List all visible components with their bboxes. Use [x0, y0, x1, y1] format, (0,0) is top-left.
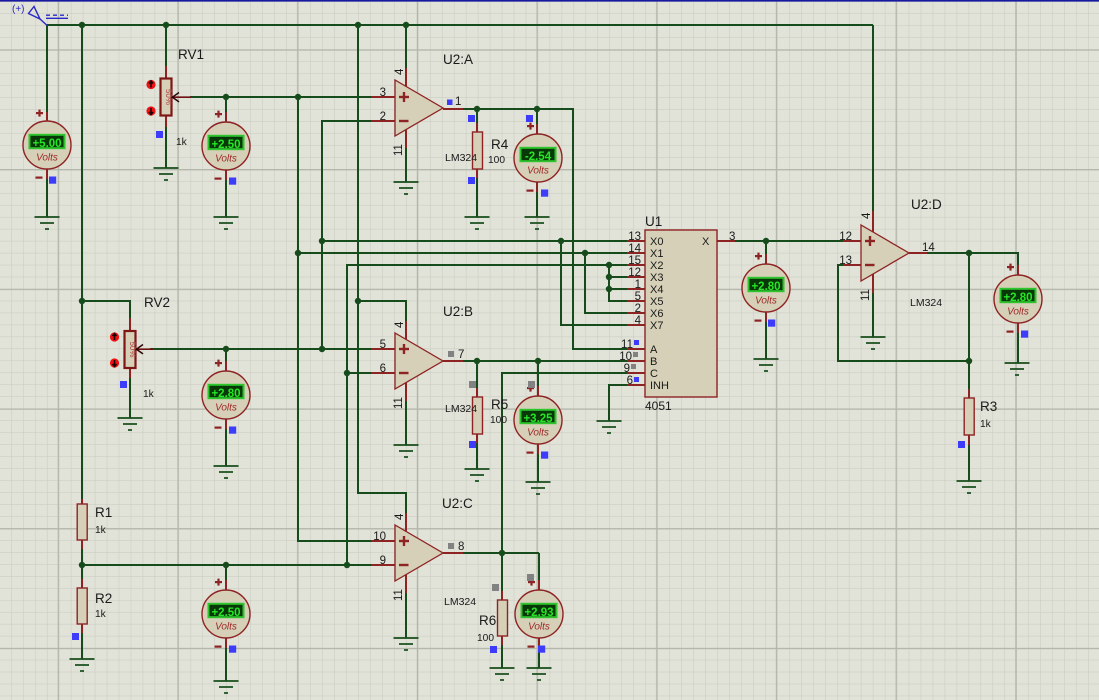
handle PV3 top [526, 115, 533, 122]
svg-text:4: 4 [861, 212, 873, 219]
node wiper1-PV2 [223, 94, 229, 100]
wire 5V to U2:A pin4 [405, 25, 407, 68]
pin stubs op-amp U2:B [371, 321, 463, 401]
svg-text:X4: X4 [650, 284, 663, 296]
handle R2 [72, 633, 79, 640]
ground (RV1) [154, 168, 179, 180]
wire X1 to X6 link [585, 253, 627, 313]
node rail-RV2 branch [79, 298, 85, 304]
wire 5V to U2:D pin4 [872, 25, 874, 211]
svg-text:Volts: Volts [755, 296, 777, 307]
wire RV1 net to U1 X1 [298, 252, 627, 254]
title bar [0, 0, 1099, 2]
svg-text:6: 6 [627, 375, 633, 387]
handle U1 pin11 blue [634, 340, 639, 345]
svg-text:10: 10 [619, 351, 632, 363]
svg-text:1: 1 [455, 96, 461, 108]
wire left rail down to R1 [81, 25, 83, 499]
node 5V-U2B pin4 [355, 298, 361, 304]
svg-text:-2.54: -2.54 [525, 151, 552, 163]
voltmeter PV3 -2.54 [514, 123, 562, 197]
svg-text:1k: 1k [176, 137, 188, 148]
wire U2:D pin11 to ground [872, 293, 874, 337]
node U2A out-R4 [474, 106, 480, 112]
resistor R4 [473, 132, 483, 169]
wire to voltmeter PV2 top [225, 97, 227, 112]
svg-text:14: 14 [922, 242, 935, 254]
svg-text:+5.00: +5.00 [32, 138, 61, 150]
voltmeter PV5 +3.25 [514, 385, 562, 459]
svg-text:(+): (+) [12, 4, 25, 15]
svg-text:Volts: Volts [215, 622, 237, 633]
pin stubs R6 [501, 591, 503, 645]
wire X0 to X7 link [561, 241, 627, 325]
resistor R3 [964, 398, 974, 435]
node U2A out-PV3 [534, 106, 540, 112]
voltmeter PV8 +2.80 [742, 253, 790, 327]
pin stubs RV2 [129, 318, 131, 378]
wire RV1 bottom to ground [165, 127, 167, 168]
svg-text:R6: R6 [479, 613, 496, 628]
op-amp U2:C [395, 525, 443, 581]
handle R6 bottom [490, 646, 497, 653]
svg-text:X0: X0 [650, 236, 663, 248]
svg-text:RV1: RV1 [178, 47, 204, 62]
ground (voltmeter PV9) [1005, 363, 1030, 375]
svg-text:1k: 1k [980, 419, 992, 430]
svg-text:R1: R1 [95, 505, 112, 520]
pin stubs R4 [476, 123, 478, 178]
op-amp U2:B [395, 333, 443, 389]
pin stub U1 X output [717, 240, 735, 242]
svg-text:4: 4 [394, 321, 406, 328]
pin stubs voltmeter PV3 [536, 124, 538, 192]
svg-text:R4: R4 [491, 137, 509, 152]
resistor R6 [498, 600, 508, 636]
pin stubs voltmeter PV2 [225, 112, 227, 180]
wire U2:C output up to C select [502, 373, 627, 553]
potentiometer RV1 [146, 79, 191, 116]
svg-text:4: 4 [394, 68, 406, 75]
svg-text:12: 12 [628, 267, 641, 279]
handle U1 pin6 blue [634, 377, 639, 382]
svg-text:4: 4 [635, 315, 642, 327]
node X0-left [319, 238, 325, 244]
svg-text:X7: X7 [650, 320, 663, 332]
wire to R4 top [476, 109, 478, 123]
svg-text:11: 11 [860, 289, 872, 301]
voltmeter PV1 +5.00 [23, 110, 71, 184]
pin stubs RV1 [165, 66, 167, 127]
svg-text:U2:D: U2:D [911, 197, 942, 212]
wire RV2 wiper to U2:B pin5 [150, 348, 371, 350]
pin stubs voltmeter PV8 [765, 254, 767, 322]
node X3 [606, 274, 612, 280]
handle U2:A out blue [447, 100, 453, 106]
ground (voltmeter PV8) [754, 359, 779, 371]
node U2C out [499, 550, 505, 556]
handle RV2 [120, 381, 127, 388]
node U2B out-PV5 [535, 358, 541, 364]
pin stubs R1 [81, 499, 83, 549]
resistor R1 [77, 504, 87, 540]
svg-text:R2: R2 [95, 591, 112, 606]
pin stubs voltmeter PV4 [225, 361, 227, 429]
op-amp U2:D [861, 225, 909, 281]
node X1-left [295, 250, 301, 256]
wire voltmeter PV5 bottom to ground [537, 454, 539, 482]
ground (R3) [957, 481, 982, 493]
pin stubs op-amp U2:A [371, 68, 463, 148]
svg-text:11: 11 [393, 589, 405, 601]
svg-text:X3: X3 [650, 272, 663, 284]
svg-text:U2:B: U2:B [443, 304, 473, 319]
wire divider net up to U1 X2 [347, 265, 627, 565]
svg-text:LM324: LM324 [910, 297, 942, 309]
svg-text:+2.80: +2.80 [751, 281, 780, 293]
svg-text:R3: R3 [980, 399, 997, 414]
ground (U2:B pin11) [394, 445, 419, 457]
handle PV7 top grey [527, 574, 534, 581]
wire rail branch to RV2 top [82, 301, 130, 318]
svg-text:2: 2 [635, 303, 641, 315]
node R1-R2 junction [79, 562, 85, 568]
wire voltmeter PV2 bottom to ground [225, 180, 227, 217]
pin stubs voltmeter PV5 [537, 386, 539, 454]
node rail-U2A pin4 [403, 22, 409, 28]
svg-text:11: 11 [393, 397, 405, 409]
svg-text:C: C [650, 368, 658, 380]
svg-text:X1: X1 [650, 248, 663, 260]
svg-text:Volts: Volts [528, 622, 550, 633]
wire rail to voltmeter PV1 [46, 25, 48, 112]
ground (R4) [465, 217, 490, 229]
wire to voltmeter PV8 top [765, 241, 767, 254]
multiplexer U1 4051 [645, 230, 717, 397]
svg-text:X5: X5 [650, 296, 663, 308]
wire voltmeter PV9 bottom to ground [1017, 333, 1019, 363]
svg-text:+2.80: +2.80 [1003, 292, 1032, 304]
svg-text:R5: R5 [491, 397, 508, 412]
svg-text:8: 8 [458, 541, 464, 553]
svg-text:5: 5 [635, 291, 641, 303]
svg-text:Volts: Volts [527, 166, 549, 177]
wire 5V to U2:B pin4 [358, 301, 406, 321]
svg-text:+2.80: +2.80 [211, 388, 240, 400]
svg-text:Volts: Volts [1007, 307, 1029, 318]
svg-text:15: 15 [628, 255, 641, 267]
svg-text:U1: U1 [645, 214, 662, 229]
handle R5 bottom [469, 441, 476, 448]
svg-text:5: 5 [380, 339, 386, 351]
power terminal (+) [29, 7, 69, 26]
svg-text:LM324: LM324 [445, 152, 477, 164]
wire R5 bottom to ground [476, 443, 478, 469]
wire R3 bottom to ground [968, 445, 970, 481]
wire U2:C output node [461, 552, 539, 554]
node X4 [606, 286, 612, 292]
wire U2:D output to voltmeter PV9 [927, 253, 1018, 265]
svg-text:3: 3 [729, 231, 735, 243]
wire to voltmeter PV5 top [537, 361, 539, 386]
handle R3 [958, 441, 965, 448]
wire voltmeter PV8 bottom to ground [765, 322, 767, 359]
svg-text:2: 2 [380, 111, 386, 123]
node divider-U2B pin6 [344, 370, 350, 376]
handle PV5 top grey [528, 381, 535, 388]
svg-text:3: 3 [380, 87, 386, 99]
wire to voltmeter PV3 top [536, 109, 538, 124]
node wiper2-up [319, 346, 325, 352]
svg-text:INH: INH [650, 380, 669, 392]
ground (R6) [490, 668, 515, 680]
svg-text:9: 9 [380, 555, 386, 567]
handle RV1 [156, 131, 163, 138]
svg-text:100: 100 [488, 155, 505, 166]
svg-text:11: 11 [393, 144, 405, 156]
wire U2:C pin11 to ground [405, 593, 407, 638]
wire U2:A pin11 to ground [405, 148, 407, 182]
svg-text:X6: X6 [650, 308, 663, 320]
ground (U2:C pin11) [394, 638, 419, 650]
wire RV1 net down to U2:C pin10 [298, 97, 371, 541]
wire RV2 net up to U2:A pin2 [322, 121, 371, 349]
wire voltmeter PV4 bottom to ground [225, 429, 227, 466]
wire RV2 bottom to ground [129, 378, 131, 418]
ground (INH) [597, 421, 622, 433]
ground (voltmeter PV4) [214, 466, 239, 478]
ground (voltmeter PV6) [214, 681, 239, 693]
handle R4 top [468, 115, 475, 122]
svg-text:100: 100 [490, 415, 507, 426]
node divider-PV6 [223, 562, 229, 568]
node rail-RV1 [163, 22, 169, 28]
wire to R6 top [501, 553, 503, 591]
wire to voltmeter PV4 top [225, 349, 227, 361]
svg-text:X: X [702, 236, 710, 248]
wire to voltmeter PV6 top [225, 565, 227, 580]
svg-text:100: 100 [477, 633, 494, 644]
handle R4 bottom [468, 177, 475, 184]
handle U1 pin9 grey [631, 364, 636, 369]
pin stubs op-amp U2:C [371, 513, 463, 593]
svg-text:U2:A: U2:A [443, 52, 473, 67]
wire divider net to U2:C pin9 [82, 564, 371, 566]
wire R4 bottom to ground [476, 178, 478, 217]
wire voltmeter PV3 bottom to ground [536, 192, 538, 217]
ground (voltmeter PV3) [525, 217, 550, 229]
node U2B out-R5 [474, 358, 480, 364]
svg-text:B: B [650, 356, 657, 368]
wire INH to ground [609, 385, 627, 421]
ground (U2:A pin11) [394, 182, 419, 194]
svg-text:+2.50: +2.50 [211, 139, 240, 151]
svg-text:Volts: Volts [215, 403, 237, 414]
handle U1 pin10 grey [633, 352, 638, 357]
voltmeter PV9 +2.80 [994, 264, 1042, 338]
svg-text:11: 11 [621, 339, 633, 351]
wire RV2 net to U1 X0 [322, 240, 627, 242]
ground (U2:D pin11) [861, 337, 886, 349]
svg-text:50%: 50% [128, 341, 137, 357]
node divider-up [344, 562, 350, 568]
wire voltmeter PV6 bottom to ground [225, 648, 227, 681]
resistor R5 [473, 397, 483, 434]
svg-text:9: 9 [624, 363, 630, 375]
svg-text:Volts: Volts [36, 153, 58, 164]
wire rail to RV1 top [165, 25, 167, 66]
node X0-X7 [558, 238, 564, 244]
ground (voltmeter PV1) [35, 217, 60, 229]
svg-text:1k: 1k [143, 389, 155, 400]
node U2D feedback [966, 358, 972, 364]
handle R6 top grey [492, 584, 499, 591]
svg-text:1k: 1k [95, 525, 107, 536]
wire RV1 wiper to U2:A pin3 [190, 96, 371, 98]
ground (voltmeter PV7) [527, 668, 552, 680]
ground (R5) [465, 469, 490, 481]
resistor R2 [77, 588, 87, 624]
wire U2:A output to A select [461, 109, 627, 349]
pin stubs voltmeter PV9 [1017, 265, 1019, 333]
svg-text:4051: 4051 [645, 399, 672, 413]
svg-text:1k: 1k [95, 609, 107, 620]
pin stubs op-amp U2:D [843, 211, 927, 293]
ground (voltmeter PV2) [214, 217, 239, 229]
node X out-PV8 [763, 238, 769, 244]
wire divider net to U2:B pin6 [347, 372, 371, 374]
wire voltmeter PV7 bottom to ground [538, 648, 540, 668]
wire to voltmeter PV7 top [538, 553, 540, 580]
pin stubs R2 [81, 579, 83, 633]
svg-text:Volts: Volts [215, 154, 237, 165]
svg-text:X2: X2 [650, 260, 663, 272]
svg-text:4: 4 [394, 513, 406, 520]
wire R2 bottom to ground [81, 633, 83, 659]
svg-text:13: 13 [839, 255, 852, 267]
node rail-R1R2 [79, 22, 85, 28]
ground (RV2) [118, 418, 143, 430]
voltmeter PV4 +2.80 [202, 360, 250, 434]
pin stubs voltmeter PV1 [46, 112, 48, 179]
svg-text:7: 7 [458, 349, 464, 361]
wire through R2 junction [81, 549, 83, 579]
handle U2:C out grey [448, 543, 454, 549]
svg-text:LM324: LM324 [444, 596, 476, 608]
voltmeter PV7 +2.93 [515, 579, 563, 653]
op-amp U2:A [395, 80, 443, 136]
svg-text:1: 1 [635, 279, 641, 291]
svg-text:13: 13 [628, 231, 641, 243]
node wiper2-PV4 [223, 346, 229, 352]
handle R5 top grey [469, 381, 476, 388]
wire X2-X3-X4-X5 link [609, 265, 627, 301]
pin stubs R5 [476, 388, 478, 443]
svg-text:14: 14 [628, 243, 641, 255]
wire 5V top rail [47, 24, 873, 26]
node U2D out [966, 250, 972, 256]
svg-text:10: 10 [373, 531, 386, 543]
pin stubs U1 left side [627, 241, 645, 385]
svg-text:U2:C: U2:C [442, 496, 473, 511]
svg-text:12: 12 [839, 231, 852, 243]
svg-text:LM324: LM324 [445, 403, 477, 415]
wire X3 stub link [609, 276, 627, 278]
pin stubs voltmeter PV6 [225, 580, 227, 648]
wire voltmeter PV1 bottom to ground [46, 179, 48, 217]
node wiper1-down [295, 94, 301, 100]
svg-text:50%: 50% [164, 89, 173, 105]
voltmeter PV2 +2.50 [202, 111, 250, 185]
ground (voltmeter PV5) [526, 482, 551, 494]
wire U2:D output down to R3 [968, 253, 970, 389]
potentiometer RV2 [110, 331, 153, 368]
pin stubs R3 [968, 389, 970, 445]
wire 5V vertical rail x358 [358, 25, 406, 513]
svg-text:+2.50: +2.50 [211, 607, 240, 619]
ground (R2) [70, 659, 95, 671]
wire to R5 top [476, 361, 478, 388]
wire U2:D feedback to pin13 [838, 265, 969, 361]
svg-text:6: 6 [380, 363, 386, 375]
node rail-x358 [355, 22, 361, 28]
wire X4 stub link [609, 288, 627, 290]
svg-text:+2.93: +2.93 [524, 607, 553, 619]
svg-text:RV2: RV2 [144, 295, 170, 310]
wire U2:B pin11 to ground [405, 401, 407, 445]
node X2 [606, 262, 612, 268]
handle U2:B out grey [448, 351, 454, 357]
wire U2:B output to B select [461, 360, 627, 362]
svg-text:+3.25: +3.25 [523, 413, 553, 425]
svg-text:Volts: Volts [527, 428, 549, 439]
wire R6 bottom to ground [501, 645, 503, 668]
voltmeter PV6 +2.50 [202, 579, 250, 653]
pin stubs voltmeter PV7 [538, 580, 540, 648]
wire U1 X output to U2:D pin12 [735, 240, 843, 242]
svg-text:A: A [650, 344, 658, 356]
node X1-X6 [582, 250, 588, 256]
